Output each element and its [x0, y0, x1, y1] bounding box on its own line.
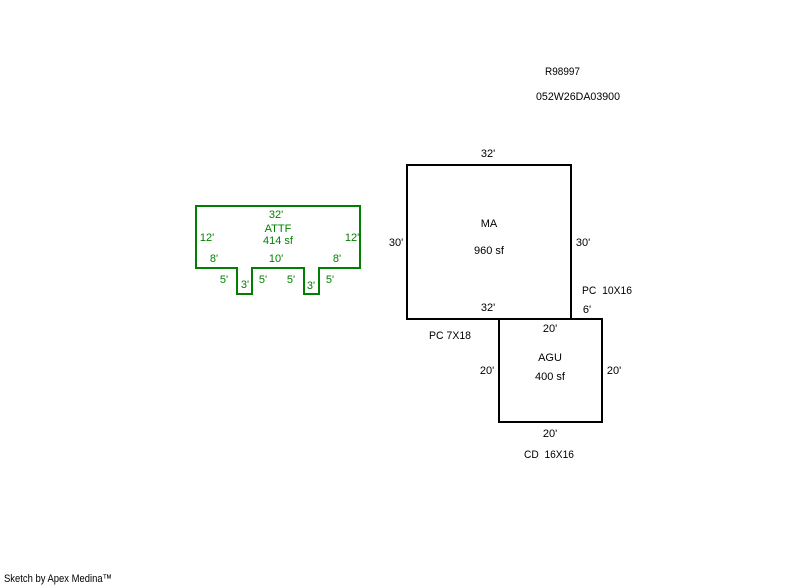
svg-text:3': 3': [307, 280, 315, 292]
svg-text:CD 16X16: CD 16X16: [524, 449, 574, 461]
svg-text:20': 20': [543, 428, 557, 440]
svg-text:12': 12': [200, 232, 214, 244]
svg-text:052W26DA03900: 052W26DA03900: [536, 91, 620, 103]
svg-text:PC 7X18: PC 7X18: [429, 330, 471, 342]
svg-text:R98997: R98997: [545, 66, 580, 78]
svg-text:10': 10': [269, 253, 283, 265]
svg-text:20': 20': [480, 365, 494, 377]
AGU outline (20 x 20): [499, 319, 602, 422]
svg-text:20': 20': [543, 323, 557, 335]
svg-text:30': 30': [576, 237, 590, 249]
svg-text:AGU: AGU: [538, 352, 562, 364]
svg-text:414 sf: 414 sf: [263, 235, 294, 247]
svg-text:Sketch by Apex Medina™: Sketch by Apex Medina™: [4, 573, 112, 585]
svg-text:3': 3': [241, 279, 249, 291]
svg-text:ATTF: ATTF: [265, 223, 292, 235]
svg-text:32': 32': [481, 148, 495, 160]
svg-text:400 sf: 400 sf: [535, 371, 566, 383]
svg-text:5': 5': [326, 274, 334, 286]
svg-text:30': 30': [389, 237, 403, 249]
svg-text:32': 32': [481, 302, 495, 314]
svg-text:8': 8': [210, 253, 218, 265]
svg-text:5': 5': [259, 274, 267, 286]
svg-text:MA: MA: [481, 218, 498, 230]
ATTF outline (green attached feature 414 sf): [196, 206, 360, 294]
svg-text:6': 6': [583, 304, 591, 316]
svg-text:20': 20': [607, 365, 621, 377]
svg-text:960 sf: 960 sf: [474, 245, 505, 257]
svg-text:PC 10X16: PC 10X16: [582, 285, 632, 297]
svg-text:8': 8': [333, 253, 341, 265]
svg-text:5': 5': [220, 274, 228, 286]
svg-text:12': 12': [345, 232, 359, 244]
MA outline (main area 32 x 30): [407, 165, 571, 319]
svg-text:32': 32': [269, 209, 283, 221]
svg-text:5': 5': [287, 274, 295, 286]
